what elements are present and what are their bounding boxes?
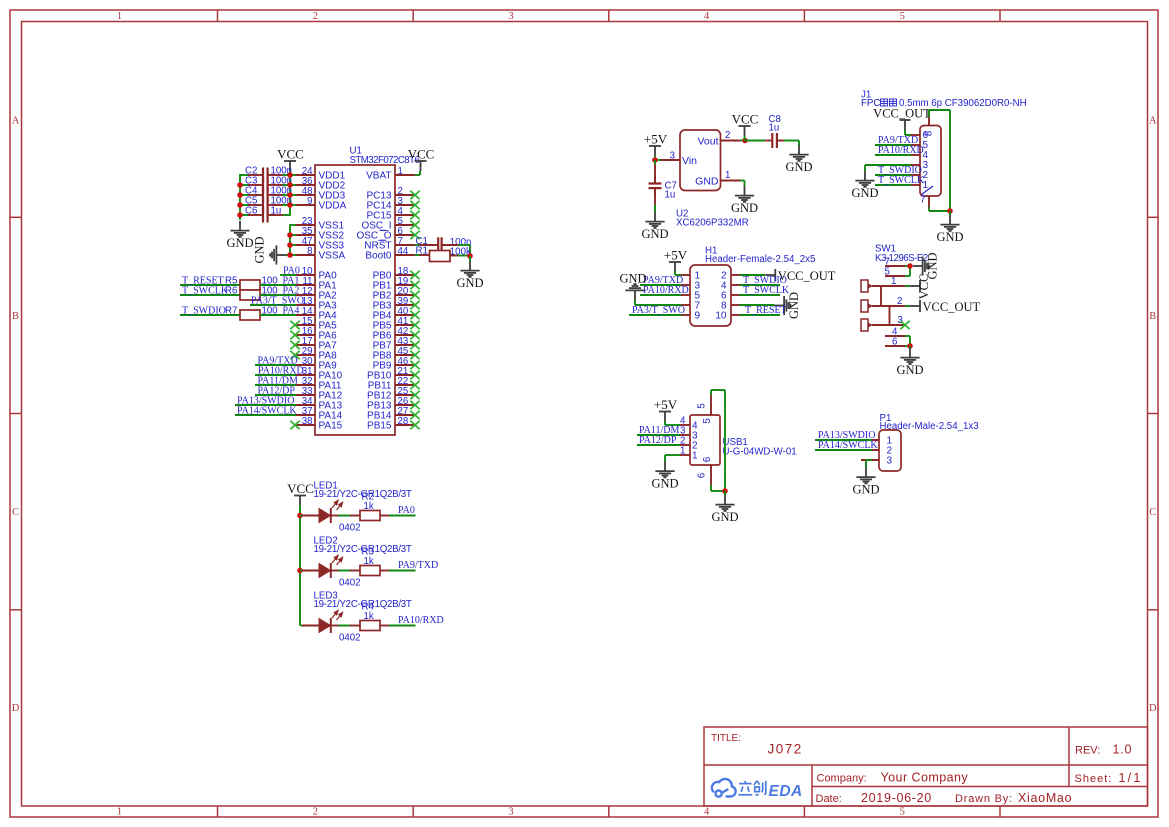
svg-text:Company:: Company: (817, 773, 867, 785)
LED LED1 19-21/Y2C-GR1Q2B/3T (300, 515, 305, 517)
net label T_SWCLK at H1 pin6 (740, 294, 781, 296)
IC U2 XC6206P332MR body (680, 130, 721, 191)
svg-text:PA0: PA0 (283, 265, 300, 276)
svg-text:0402: 0402 (339, 633, 361, 644)
capacitor C5 100n (240, 204, 250, 206)
IC U1 STM32F072C8T6 body (315, 165, 395, 435)
net label PA10/RXD at H1 pin5 (640, 294, 681, 296)
svg-text:B: B (12, 311, 19, 322)
svg-text:PB15: PB15 (367, 421, 392, 432)
svg-text:R7: R7 (225, 305, 237, 316)
USB1 pin 5 (top) (710, 395, 712, 416)
svg-text:PA12/DP: PA12/DP (639, 435, 677, 446)
svg-text:VDDA: VDDA (319, 201, 347, 212)
ground symbol at U2 pin1 (735, 186, 754, 202)
svg-text:D: D (12, 703, 20, 714)
H1 pin 8 (731, 304, 742, 306)
no-connect flags U1 right pins PC13-OSC_O, PB0-PB15 (410, 191, 419, 199)
wire J1 shield to ground rail (928, 110, 930, 117)
svg-text:VCC: VCC (917, 274, 931, 300)
U1 pin 11 (PA1) (295, 284, 315, 286)
wire - right VCC rail of decoupling caps (289, 174, 291, 216)
svg-text:Header-Male-2.54_1x3: Header-Male-2.54_1x3 (880, 421, 979, 432)
ground symbol below USB1 (724, 491, 726, 495)
svg-text:4: 4 (704, 11, 710, 22)
svg-text:1k: 1k (364, 611, 374, 622)
U1 pin 26 (PB13) (395, 404, 415, 406)
svg-text:GND: GND (253, 236, 267, 263)
net label PA10/RXD (255, 374, 296, 376)
net label PA2 wire to U1 (260, 294, 296, 296)
U2 pin 2 Vout (721, 140, 741, 142)
VCC net flag above decoupling caps (284, 161, 296, 171)
svg-text:2: 2 (725, 130, 730, 141)
net label PA11/DM at USB1 pin3 (637, 434, 680, 436)
+5V net flag at USB1 pin4 (659, 412, 671, 422)
net label PA13/SWDIO at P1 pin1 (815, 439, 872, 441)
svg-text:8: 8 (924, 130, 935, 136)
junction dot J1 ground (947, 208, 953, 214)
svg-text:7: 7 (920, 195, 926, 206)
svg-text:38: 38 (302, 416, 313, 427)
connector P1 Header-Male-2.54_1x3 body (879, 430, 901, 471)
U1 pin 21 (PB10) (395, 374, 415, 376)
svg-text:1/1: 1/1 (1119, 771, 1143, 785)
svg-text:VCC_OUT: VCC_OUT (873, 106, 931, 120)
U1 pin 29 (PA8) (295, 354, 315, 356)
svg-text:GND: GND (641, 227, 668, 241)
J1 pin 4 (910, 154, 920, 156)
ground symbol at USB1 pin1 (655, 462, 674, 478)
resistor R6 100 (240, 290, 260, 300)
svg-text:5: 5 (885, 266, 890, 277)
SW1 pin 4 (885, 335, 905, 337)
svg-text:XiaoMao: XiaoMao (1018, 791, 1072, 805)
U1 pin 9 (VDDA) (295, 204, 315, 206)
U1 pin 5 (OSC_I) (395, 224, 415, 226)
junction dots on LED rail (297, 513, 303, 519)
H1 pin 1 (679, 274, 690, 276)
SW1 contact rectangles (861, 280, 868, 292)
ground symbol below C2-C6 (230, 221, 249, 237)
svg-text:VSSA: VSSA (319, 251, 346, 262)
svg-text:3: 3 (887, 455, 893, 466)
junction dot SW1 bottom (907, 343, 913, 349)
U1 pin 33 (PA12) (295, 394, 315, 396)
U1 pin 8 (VSSA) (295, 254, 315, 256)
VCC net flag at SW1 pin1 (rotated) (905, 285, 910, 287)
H1 pin 10 (731, 314, 742, 316)
U1 pin 41 (PB5) (395, 324, 415, 326)
svg-text:GND: GND (851, 186, 878, 200)
junction dots on VSS rail (287, 232, 293, 238)
U1 pin 34 (PA13) (295, 404, 315, 406)
capacitor C6 1u (240, 214, 250, 216)
U1 pin 40 (PB4) (395, 314, 415, 316)
net label PA14/SWCLK (235, 414, 296, 416)
svg-text:6: 6 (892, 336, 897, 347)
svg-text:5: 5 (702, 418, 713, 424)
U2 pin 1 GND (721, 180, 741, 182)
svg-text:9: 9 (695, 310, 701, 321)
U1 pin 46 (PB9) (395, 364, 415, 366)
svg-text:5: 5 (900, 807, 905, 818)
svg-text:VCC: VCC (732, 112, 759, 127)
U1 pin 17 (PA7) (295, 344, 315, 346)
wire - left GND rail of decoupling caps (239, 174, 241, 220)
net label PA3/T_SWO at H1 pin9 (629, 314, 681, 316)
H1 pin 9 (679, 314, 690, 316)
svg-text:GND: GND (785, 160, 812, 174)
wire P1 pin3 to ground (866, 459, 872, 461)
capacitor C7 1u (654, 160, 656, 166)
svg-text:GND: GND (695, 175, 719, 187)
svg-text:1: 1 (680, 446, 685, 457)
svg-text:GND: GND (787, 292, 801, 319)
svg-text:T_SWCLK: T_SWCLK (878, 175, 925, 186)
wire SW1 pins 5/7 tie (905, 265, 910, 267)
no-connect flag SW1 pin3 (900, 321, 909, 329)
wire R1 to junction (450, 255, 459, 257)
svg-text:C: C (1149, 507, 1156, 518)
svg-text:Header-Female-2.54_2x5: Header-Female-2.54_2x5 (705, 254, 815, 265)
svg-text:Your Company: Your Company (881, 771, 969, 785)
svg-text:1: 1 (891, 276, 896, 287)
net label PA9/TXD (255, 364, 296, 366)
net label PA4 wire to U1 (260, 314, 296, 316)
svg-text:VCC: VCC (408, 147, 435, 162)
U2 pin 3 Vin (660, 159, 680, 161)
SW1 pin 3 (872, 324, 905, 326)
svg-text:GND: GND (651, 477, 678, 491)
svg-text:1: 1 (725, 170, 730, 181)
USB1 pin 3 (679, 434, 690, 436)
VCC_OUT net flag at SW1 pin2 (905, 305, 910, 307)
title block outline (704, 727, 1148, 806)
svg-text:C6: C6 (245, 206, 257, 217)
svg-text:8: 8 (307, 246, 312, 257)
net label T_RESET wire (180, 284, 240, 286)
U1 pin 12 (PA2) (295, 294, 315, 296)
U1 pin 43 (PB7) (395, 344, 415, 346)
svg-text:A: A (1149, 115, 1157, 126)
+5V net flag at Vin (649, 146, 661, 156)
wire U2 GND pin to ground (740, 180, 745, 182)
wire USB1 pin1 to ground (665, 454, 680, 456)
svg-text:T_SWDIO: T_SWDIO (182, 305, 226, 316)
U1 pin 18 (PB0) (395, 274, 415, 276)
svg-text:TITLE:: TITLE: (711, 733, 741, 744)
svg-text:Sheet:: Sheet: (1075, 773, 1113, 785)
VCC net flag at VBAT (415, 174, 420, 176)
svg-text:VBAT: VBAT (366, 171, 391, 182)
VCC net flag at Vout (739, 126, 751, 136)
resistor R3 1k 0402 (338, 570, 352, 572)
svg-text:+5V: +5V (664, 248, 688, 263)
resistor R4 1k 0402 (338, 625, 352, 627)
ground symbol below C1/R1 (469, 256, 471, 261)
svg-text:9: 9 (307, 196, 312, 207)
svg-text:44: 44 (398, 246, 409, 257)
LED LED2 19-21/Y2C-GR1Q2B/3T (300, 570, 305, 572)
U1 pin 31 (PA10) (295, 374, 315, 376)
net label PA10/RXD at LED3 (380, 625, 389, 627)
net label PA12/DP at USB1 pin2 (637, 444, 680, 446)
USB1 pin 2 (679, 444, 690, 446)
junction dot NRST/Boot0 ground (467, 253, 473, 259)
VCC net flag for LEDs (294, 496, 306, 506)
H1 pin 3 (679, 284, 690, 286)
H1 pin 4 (731, 284, 742, 286)
U1 pin 47 (VSS3) (295, 244, 315, 246)
svg-text:R1: R1 (416, 246, 428, 257)
svg-text:6: 6 (697, 473, 708, 478)
connector USB1 U-G-04WD-W-01 body (690, 415, 720, 465)
U1 pin 14 (PA4) (295, 314, 315, 316)
svg-text:1u: 1u (271, 206, 282, 217)
svg-text:T_SWCLK: T_SWCLK (182, 285, 229, 296)
wire Boot0 to R1 (415, 254, 421, 256)
U1 pin 48 (VDD3) (295, 194, 315, 196)
junction dot SW1 top (907, 263, 913, 269)
svg-text:GND: GND (936, 230, 963, 244)
junction dot USB1 ground (722, 488, 728, 494)
svg-text:2: 2 (313, 11, 318, 22)
U1 pin 20 (PB2) (395, 294, 415, 296)
EasyEDA logo cloud (712, 779, 736, 797)
svg-text:0402: 0402 (339, 523, 361, 534)
svg-text:PA3/T_SWO: PA3/T_SWO (632, 305, 685, 316)
svg-text:Boot0: Boot0 (365, 251, 392, 262)
U1 pin 28 (PB15) (395, 424, 415, 426)
SW1 pin 1 (872, 285, 905, 287)
junction dot at Vout (742, 138, 748, 144)
H1 pin 7 (679, 304, 690, 306)
resistor R7 100 (240, 310, 260, 320)
svg-text:2: 2 (313, 807, 318, 818)
U1 pin 23 (VSS1) (295, 224, 315, 226)
LED LED3 19-21/Y2C-GR1Q2B/3T (300, 625, 305, 627)
USB1 pin 4 (679, 424, 690, 426)
svg-text:3: 3 (898, 315, 903, 326)
svg-text:J072: J072 (768, 742, 803, 757)
svg-text:GND: GND (619, 272, 646, 286)
SW1 pin 6 (885, 345, 905, 347)
U1 pin 2 (PC13) (395, 194, 415, 196)
junction dots on cap rails (237, 182, 243, 188)
U1 pin 35 (VSS2) (295, 234, 315, 236)
svg-text:VCC: VCC (277, 147, 304, 162)
net label T_SWCLK at J1 pin1 (875, 184, 911, 186)
net label PA0 (280, 274, 296, 276)
U1 pin 22 (PB11) (395, 384, 415, 386)
svg-text:3: 3 (508, 11, 513, 22)
net label PA11/DM (255, 384, 296, 386)
U1 pin 1 (VBAT) (395, 174, 415, 176)
P1 pin 3 (861, 459, 879, 461)
svg-text:5: 5 (697, 403, 708, 408)
svg-text:2: 2 (897, 296, 902, 307)
svg-text:GND: GND (456, 276, 483, 290)
capacitor C2 100n (240, 174, 250, 176)
J1 pin 1 (910, 184, 920, 186)
H1 pin 2 (731, 274, 742, 276)
net label T_SWDIO at J1 pin2 (875, 174, 911, 176)
svg-text:C: C (12, 507, 19, 518)
connector J1 FPC body (920, 126, 941, 197)
U1 pin 10 (PA0) (295, 274, 315, 276)
svg-text:VCC: VCC (287, 481, 314, 496)
wire SW1 pins 4/6 tie (905, 335, 910, 337)
net label T_SWDIO wire (180, 314, 240, 316)
svg-text:+5V: +5V (654, 397, 678, 412)
ground symbol at VSSA (rotated left) (270, 245, 286, 264)
net label PA10/RXD at J1 pin4 (875, 154, 911, 156)
J1 pin 6 (910, 134, 920, 136)
svg-text:B: B (1149, 311, 1156, 322)
svg-text:D: D (1149, 703, 1157, 714)
P1 pin 1 (861, 439, 879, 441)
svg-text:PA9/TXD: PA9/TXD (398, 560, 438, 571)
svg-text:PA10/RXD: PA10/RXD (878, 145, 924, 156)
svg-text:A: A (12, 115, 20, 126)
J1 pin 8 (top) (928, 117, 930, 126)
U1 pin 13 (PA3) (295, 304, 315, 306)
net label PA9/TXD at J1 pin5 (875, 144, 911, 146)
svg-text:4: 4 (704, 807, 710, 818)
ground symbol below SW1 (909, 346, 911, 348)
svg-text:+5V: +5V (644, 132, 668, 147)
svg-text:Vin: Vin (682, 155, 697, 167)
wire J1 pin3 to ground (865, 164, 911, 166)
resistor R1 100k (430, 251, 451, 262)
ground symbol at P1 pin3 (856, 468, 875, 484)
P1 pin 2 (861, 449, 879, 451)
svg-text:1: 1 (117, 807, 122, 818)
svg-text:3: 3 (508, 807, 513, 818)
H1 pin 5 (679, 294, 690, 296)
svg-text:PA3/T_SWO: PA3/T_SWO (251, 295, 304, 306)
SW1 pin 2 (872, 305, 905, 307)
capacitor C1 100n (437, 237, 439, 260)
svg-text:1k: 1k (364, 501, 374, 512)
J1 pin 7 (bottom) (928, 196, 930, 207)
net label PA9/TXD at LED2 (380, 570, 389, 572)
svg-text:1u: 1u (665, 190, 676, 201)
U1 pin 6 (OSC_O) (395, 234, 415, 236)
svg-text:5: 5 (900, 11, 905, 22)
USB1 pin 1 (679, 454, 690, 456)
net label PA13/SWDIO (235, 404, 296, 406)
J1 pin 3 (910, 164, 920, 166)
no-connect flags U1 left pins PA5-PA8, PA15 (290, 321, 299, 329)
svg-text:XC6206P332MR: XC6206P332MR (676, 218, 749, 229)
U1 pin 27 (PB14) (395, 414, 415, 416)
svg-text:REV:: REV: (1075, 745, 1100, 757)
svg-text:Vout: Vout (697, 135, 718, 147)
U1 pin 38 (PA15) (295, 424, 315, 426)
svg-text:T_SWCLK: T_SWCLK (743, 285, 790, 296)
net label PA12/DP (255, 394, 296, 396)
U1 pin 39 (PB3) (395, 304, 415, 306)
+5V net flag at H1 pin1 (669, 262, 681, 272)
net label T_SWDIO at H1 pin4 (740, 284, 781, 286)
ground symbol at J1 pin3 (855, 171, 874, 187)
J1 pin 5 (910, 144, 920, 146)
wire Vout to VCC junction (740, 140, 746, 142)
svg-text:K3-1296S-E2: K3-1296S-E2 (875, 253, 928, 264)
svg-text:GND: GND (711, 510, 738, 524)
U1 pin 30 (PA9) (295, 364, 315, 366)
H1 pin 6 (731, 294, 742, 296)
net label PA1 wire to U1 (260, 284, 296, 286)
ground at SW1 pin7 (rotated right) (913, 256, 929, 275)
SW1 pin 7 (885, 265, 905, 267)
svg-text:GND: GND (852, 483, 879, 497)
resistor R5 100 (240, 280, 260, 290)
wire - LED VCC rail (299, 515, 301, 626)
U1 pin 19 (PB1) (395, 284, 415, 286)
svg-text:PA14/SWCLK: PA14/SWCLK (237, 405, 297, 416)
ground symbol below J1 (949, 211, 951, 215)
svg-text:1: 1 (398, 166, 403, 177)
svg-text:6: 6 (702, 456, 713, 462)
U1 pin 4 (PC15) (395, 214, 415, 216)
svg-text:T_RESET: T_RESET (745, 305, 787, 316)
U1 pin 16 (PA6) (295, 334, 315, 336)
svg-text:1: 1 (692, 450, 698, 461)
svg-text:1.0: 1.0 (1113, 743, 1133, 757)
svg-text:R6: R6 (225, 285, 237, 296)
svg-text:PA15: PA15 (319, 421, 343, 432)
svg-text:28: 28 (398, 416, 409, 427)
capacitor C4 100n (240, 194, 250, 196)
svg-text:1: 1 (117, 11, 122, 22)
SW1 internal links (880, 286, 882, 306)
wire C1 to junction (442, 244, 459, 246)
svg-text:GND: GND (226, 236, 253, 250)
svg-text:EDA: EDA (769, 783, 803, 800)
U1 pin 15 (PA5) (295, 324, 315, 326)
svg-text:10: 10 (715, 310, 727, 321)
USB1 pin 6 (bottom) (710, 465, 712, 485)
capacitor C8 1u (745, 140, 765, 142)
net label PA0 at LED1 (380, 515, 389, 517)
svg-text:PA10/RXD: PA10/RXD (398, 615, 444, 626)
U1 pin 44 (Boot0) (395, 254, 415, 256)
U1 pin 7 (NRST) (395, 244, 415, 246)
svg-text:Drawn By:: Drawn By: (955, 793, 1013, 805)
ground symbol right of C8 (798, 141, 800, 146)
U1 pin 24 (VDD1) (295, 174, 315, 176)
ground at H1 pin8 (rotated right) (740, 304, 775, 306)
svg-text:GND: GND (896, 363, 923, 377)
svg-text:PA0: PA0 (398, 505, 415, 516)
EasyEDA logo text 立创 (738, 781, 766, 795)
U1 pin 25 (PB12) (395, 394, 415, 396)
U1 pin 36 (VDD2) (295, 184, 315, 186)
wire USB1 pin6 to ground (710, 485, 712, 491)
net label T_RESET at H1 pin10 (740, 314, 781, 316)
svg-text:U-G-04WD-W-01: U-G-04WD-W-01 (723, 447, 797, 458)
svg-text:VCC_OUT: VCC_OUT (923, 300, 981, 314)
svg-text:GND: GND (731, 201, 758, 215)
svg-text:3: 3 (670, 150, 675, 161)
wire - VSS ground rail (289, 224, 291, 255)
svg-text:PA4: PA4 (283, 305, 300, 316)
U1 pin 45 (PB8) (395, 354, 415, 356)
connector H1 Header-Female-2.54_2x5 body (690, 265, 731, 326)
